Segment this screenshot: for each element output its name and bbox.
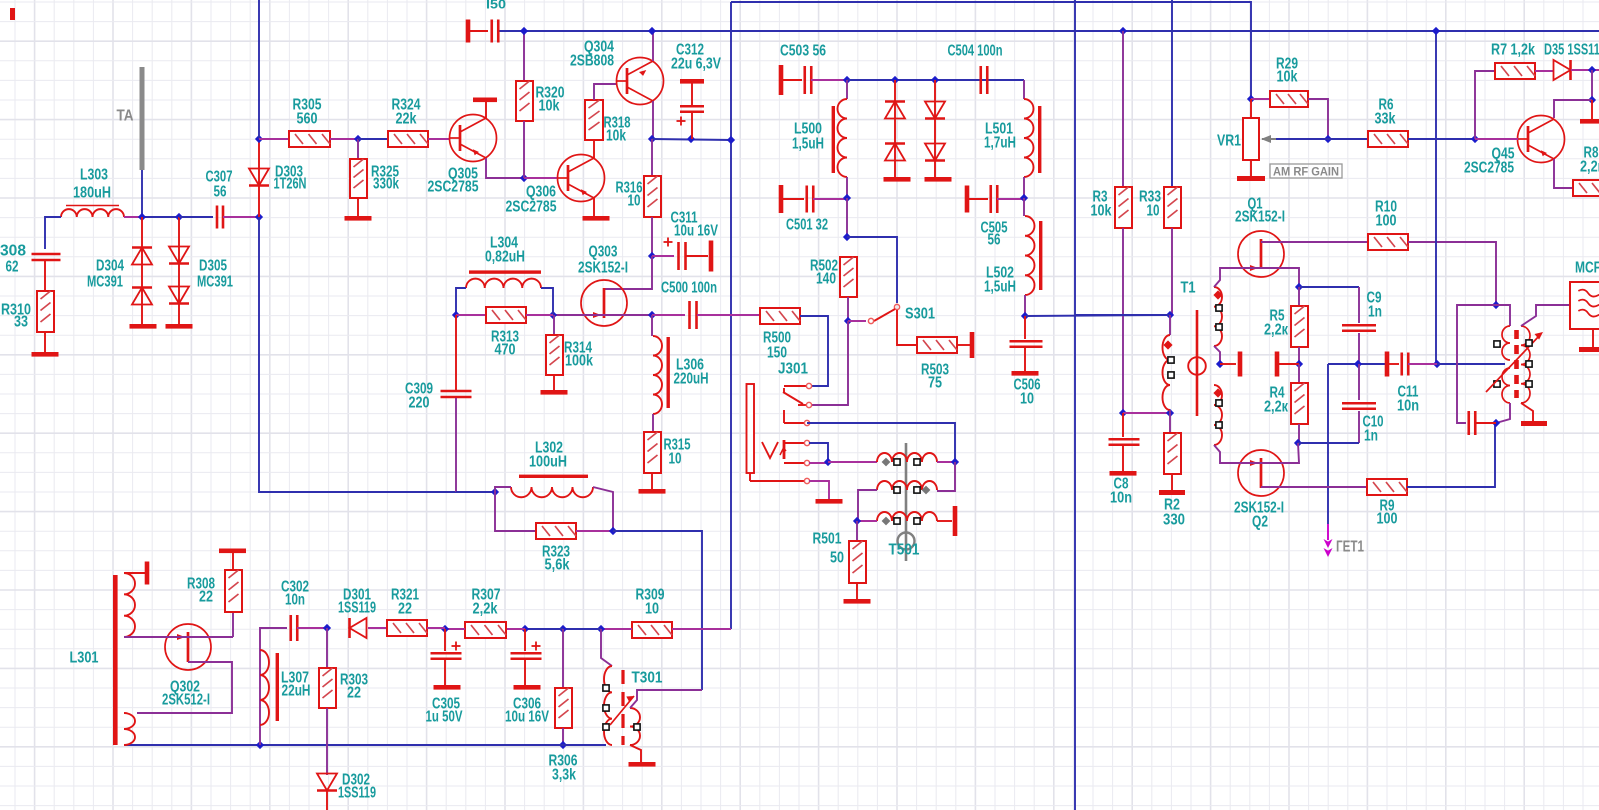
jack J301 sleeve pin bbox=[749, 473, 751, 481]
wire C305 bottom lead bbox=[444, 659, 446, 685]
wire L500 bottom lead bbox=[846, 177, 848, 198]
wire C12 left bbox=[1457, 305, 1496, 423]
wire R325 to ground bbox=[357, 198, 359, 216]
resistor R318 bbox=[585, 100, 603, 140]
diode D302 (1SS119) bbox=[317, 774, 337, 791]
wire winding bottom to Q302 gate bbox=[124, 636, 165, 638]
wire R310 to ground bbox=[44, 332, 46, 352]
inductor L303 bbox=[66, 205, 119, 207]
wire Q302 source line bbox=[137, 662, 232, 713]
wire R10 right down bbox=[1408, 242, 1496, 305]
svg-text:T301: T301 bbox=[632, 670, 663, 687]
wire contact4 to T501 node bbox=[809, 443, 828, 462]
junction L502 top node bbox=[1020, 194, 1028, 202]
svg-text:10k: 10k bbox=[1091, 203, 1112, 220]
resistor R315 bbox=[644, 432, 661, 473]
svg-text:100uH: 100uH bbox=[529, 454, 567, 471]
svg-text:10u 16V: 10u 16V bbox=[674, 223, 718, 240]
wire collector node right bbox=[652, 139, 732, 140]
wire node to C306 node bbox=[525, 628, 563, 630]
svg-text:R7 1,2k: R7 1,2k bbox=[1491, 42, 1535, 59]
junction antenna node bbox=[138, 213, 146, 221]
wire left winding top lead bbox=[1169, 315, 1171, 335]
svg-text:10n: 10n bbox=[1110, 490, 1132, 507]
resistor R305 bbox=[289, 131, 330, 147]
svg-text:2SK152-I: 2SK152-I bbox=[1235, 209, 1285, 226]
resistor R502 bbox=[840, 257, 857, 297]
wire D305 node to C307 bbox=[179, 216, 213, 218]
wire top winding left bbox=[828, 461, 877, 463]
svg-text:22uH: 22uH bbox=[282, 683, 311, 700]
ground under R325 bbox=[345, 216, 372, 221]
junction L304 right node bbox=[549, 311, 557, 319]
svg-text:10n: 10n bbox=[285, 592, 305, 609]
wire supply bus y=31 bbox=[499, 30, 1599, 32]
wire R313 to right node bbox=[526, 314, 553, 316]
wire R316 top lead bbox=[651, 139, 653, 176]
svg-text:C501 32: C501 32 bbox=[786, 217, 828, 234]
svg-text:L303: L303 bbox=[80, 167, 108, 184]
rail bar above Q305 bbox=[473, 98, 497, 103]
wire C10 bottom lead bbox=[1358, 411, 1360, 443]
capacitor C312 (electrolytic 22u) bbox=[680, 79, 704, 84]
svg-text:10: 10 bbox=[1020, 391, 1034, 408]
diode D35 (1SS119) bbox=[1554, 60, 1571, 80]
wire D303 lead bbox=[258, 139, 260, 217]
diode ring D500b bbox=[885, 144, 905, 161]
junction R7 branch bbox=[1471, 135, 1479, 143]
transformer T301 core dashed bbox=[621, 670, 624, 745]
svg-text:AM RF GAIN: AM RF GAIN bbox=[1273, 164, 1339, 178]
wire long vertical x=731 (AGC) bbox=[730, 2, 732, 629]
svg-text:1,7uH: 1,7uH bbox=[984, 135, 1016, 152]
wire T301 right top bbox=[630, 690, 702, 708]
transistor Q2 (2SK152-I) bbox=[1238, 450, 1284, 496]
wire right winding bottom bbox=[1521, 403, 1533, 421]
wire R4 bottom lead bbox=[1298, 424, 1300, 443]
wire Q306 collector to R318 bbox=[593, 140, 595, 158]
wire R503 to bar bbox=[957, 344, 970, 346]
svg-text:220: 220 bbox=[409, 395, 430, 412]
transistor Q305 (2SC2785) bbox=[450, 115, 497, 162]
wire R324 to Q305 base bbox=[428, 138, 450, 140]
transformer T1 lower right winding bbox=[1214, 385, 1222, 445]
wire node to R29 bbox=[1251, 98, 1270, 100]
svg-text:S301: S301 bbox=[905, 306, 935, 323]
svg-text:T501: T501 bbox=[889, 542, 920, 559]
ground under VR1 bbox=[1237, 176, 1265, 181]
wire R29 right down bbox=[1308, 99, 1328, 139]
ground under ring col1 bbox=[884, 177, 911, 182]
svg-text:MC391: MC391 bbox=[197, 274, 233, 291]
junction VR1 top node bbox=[1247, 95, 1255, 103]
wire bar to plates bbox=[1389, 363, 1399, 365]
wire C505 left lead bbox=[969, 198, 988, 200]
wire T301 right bottom bbox=[630, 745, 641, 762]
resistor R8 (2,2k) bbox=[1573, 180, 1599, 196]
wire R3 top lead bbox=[1122, 31, 1124, 187]
wire L307 top corner bbox=[260, 628, 287, 745]
transformer T301 arrow bbox=[610, 696, 634, 725]
wire C309 bottom lead bbox=[455, 398, 457, 492]
svg-text:C504 100n: C504 100n bbox=[948, 43, 1003, 60]
bar terminal right pair bbox=[1275, 352, 1280, 377]
wire GET1 vertical x=1328 bbox=[1327, 364, 1329, 524]
svg-text:180uH: 180uH bbox=[73, 185, 111, 202]
svg-text:22: 22 bbox=[199, 589, 213, 606]
resistor R10 bbox=[1368, 234, 1408, 250]
svg-text:MCF: MCF bbox=[1575, 260, 1599, 277]
ground under R315 bbox=[639, 489, 666, 494]
wire R2 top lead bbox=[1169, 413, 1171, 433]
wire C11 node to tap bbox=[1437, 363, 1505, 365]
svg-text:220uH: 220uH bbox=[674, 371, 709, 388]
svg-text:10k: 10k bbox=[606, 128, 626, 145]
junction Q45 collector node bbox=[1588, 96, 1596, 104]
junction R5 top node bbox=[1295, 283, 1303, 291]
svg-text:TA: TA bbox=[117, 108, 134, 125]
jack J301 tip contact bbox=[784, 385, 807, 387]
ground under D305 bbox=[166, 324, 193, 329]
svg-text:T1: T1 bbox=[1181, 280, 1196, 297]
wire R9 right up bbox=[1407, 423, 1495, 487]
wire node to R313 bbox=[456, 314, 486, 316]
junction T1 bottom node bbox=[1166, 409, 1174, 417]
junction Q304 collector node bbox=[648, 135, 656, 143]
svg-text:33k: 33k bbox=[1375, 111, 1396, 128]
svg-text:10: 10 bbox=[628, 193, 641, 210]
svg-text:308: 308 bbox=[0, 243, 26, 260]
wire osc top bbox=[1496, 305, 1510, 326]
wire R6 right bbox=[1408, 138, 1475, 140]
wire R7 riser bbox=[1475, 71, 1495, 139]
wire L302 left leg bbox=[495, 487, 511, 492]
svg-text:10n: 10n bbox=[1397, 398, 1419, 415]
oscillator transformer core dashed bbox=[1514, 330, 1519, 398]
wire C500 left lead bbox=[652, 314, 685, 316]
wire GET1 lower bbox=[1327, 524, 1329, 540]
inductor L307 bbox=[260, 650, 269, 725]
wire C9 bottom lead bbox=[1358, 333, 1360, 364]
wire C8 bottom lead bbox=[1122, 446, 1124, 471]
resistor R321 bbox=[387, 620, 427, 636]
wire R323 right bbox=[576, 530, 613, 532]
svg-text:1,5uH: 1,5uH bbox=[792, 136, 824, 153]
wire long vertical x=259 down-left feed bbox=[259, 217, 456, 492]
svg-text:2,2к: 2,2к bbox=[1264, 399, 1288, 416]
junction L307 bottom bbox=[256, 741, 264, 749]
junction R305-D303 node bbox=[255, 135, 263, 143]
junction ring diode col1 top bbox=[891, 76, 899, 84]
svg-text:330k: 330k bbox=[373, 176, 399, 193]
svg-text:2SC2785: 2SC2785 bbox=[1464, 160, 1514, 177]
resistor R324 bbox=[388, 131, 428, 147]
wire node to bar bbox=[1591, 100, 1593, 119]
resistor R323 bbox=[536, 523, 576, 539]
wire L500 top lead bbox=[846, 80, 848, 99]
wire C8 node link bbox=[1123, 412, 1170, 414]
wire L306 top lead bbox=[651, 315, 653, 336]
wire R315 to ground bbox=[651, 473, 653, 489]
diode D305 lower (MC391) bbox=[169, 287, 189, 304]
junction L304 left node bbox=[452, 311, 460, 319]
svg-text:1SS119: 1SS119 bbox=[338, 600, 376, 617]
supply bar above R308 bbox=[219, 549, 246, 554]
wire C311 to bar bbox=[686, 255, 708, 257]
wire L501 bottom lead bbox=[1023, 177, 1025, 198]
junction R306 top node bbox=[559, 625, 567, 633]
junction C306 top node bbox=[521, 625, 529, 633]
wire C312 bottom lead bbox=[691, 112, 693, 139]
GET1 arrow bbox=[1324, 539, 1333, 548]
junction switch common bbox=[844, 317, 852, 325]
wire S301 feed bbox=[847, 237, 897, 303]
svg-text:10: 10 bbox=[645, 601, 659, 618]
wire upper winding top to Q1 gate bbox=[1214, 268, 1249, 287]
ground under D304 bbox=[130, 324, 157, 329]
svg-text:2,2к: 2,2к bbox=[1264, 322, 1288, 339]
wire L304 right leg bbox=[541, 288, 553, 315]
wire L304 left leg bbox=[456, 288, 466, 315]
wire R33 bottom lead bbox=[1171, 228, 1173, 315]
wire right winding top to MCF bbox=[1521, 305, 1570, 326]
junction T1 top node bbox=[1166, 311, 1174, 319]
wire D35 to right edge bbox=[1571, 69, 1599, 71]
wire mid winding right bbox=[937, 462, 955, 491]
svg-text:2SK512-I: 2SK512-I bbox=[162, 692, 210, 709]
junction D303 bottom node bbox=[255, 213, 263, 221]
wire C309 top lead bbox=[455, 315, 457, 390]
svg-text:J301: J301 bbox=[778, 361, 808, 378]
wire L306 bottom lead bbox=[652, 414, 654, 432]
junction tank top left bbox=[843, 76, 851, 84]
svg-text:56: 56 bbox=[214, 184, 227, 201]
svg-text:2,2k: 2,2k bbox=[473, 601, 498, 618]
wire Q1 drain line to R10 bbox=[1261, 241, 1368, 243]
wire R309 left bbox=[601, 628, 632, 630]
svg-text:50: 50 bbox=[830, 550, 844, 567]
transistor Q306 (2SC2785) bbox=[558, 155, 605, 202]
wire R307 left to C305 node bbox=[445, 628, 465, 630]
wire R314 top lead bbox=[553, 315, 555, 335]
wire Q303 drain line bbox=[603, 256, 652, 289]
wire bottom winding left bbox=[857, 520, 877, 522]
wire C308 to R310 bbox=[44, 261, 46, 291]
inductor L301 primary winding bbox=[124, 573, 135, 637]
junction R320 bus bbox=[520, 27, 528, 35]
junction C311 node bbox=[648, 252, 656, 260]
wire T1 node to L502 node bbox=[1075, 314, 1170, 316]
wire R33 top lead bbox=[1171, 0, 1173, 187]
wire R2 bottom lead bbox=[1171, 474, 1173, 490]
antenna TA bbox=[140, 67, 145, 170]
transistor Q302 (2SK512-I) bbox=[165, 624, 211, 670]
wire R3 bottom lead bbox=[1122, 228, 1124, 413]
junction L302 left node bbox=[491, 488, 499, 496]
wire R306 top lead bbox=[562, 629, 564, 688]
wire R306 bottom lead bbox=[562, 728, 564, 745]
junction T301 top node bbox=[597, 625, 605, 633]
svg-text:2SC2785: 2SC2785 bbox=[506, 199, 557, 216]
inductor L304 bbox=[469, 270, 541, 273]
svg-text:470: 470 bbox=[495, 342, 516, 359]
wire Q45 emitter bbox=[1554, 159, 1573, 188]
junction C8 node bbox=[1119, 409, 1127, 417]
svg-text:22k: 22k bbox=[396, 111, 417, 128]
wire C302 right to node bbox=[297, 627, 327, 629]
ground under C8 bbox=[1110, 471, 1137, 476]
wire vertical x=259 from top edge bbox=[258, 0, 260, 139]
wire R320 top lead bbox=[523, 31, 525, 81]
wire C306 bottom lead bbox=[524, 659, 526, 685]
junction mid rail node bbox=[1295, 360, 1303, 368]
wire C506 bottom lead bbox=[1024, 347, 1026, 371]
wire C506 top lead bbox=[1024, 316, 1026, 339]
wire y=492 feed bbox=[456, 491, 495, 493]
svg-text:C503 56: C503 56 bbox=[780, 43, 826, 60]
wire R314 to ground bbox=[553, 375, 555, 390]
wire left winding bottom lead bbox=[1169, 410, 1171, 413]
wire ring col1 bbox=[894, 80, 896, 177]
wire R321 to C305 node bbox=[427, 627, 445, 629]
wire C503 left lead bbox=[783, 79, 802, 81]
bar right of T501 bottom winding bbox=[953, 506, 958, 536]
wire long vertical x=1075 bbox=[1074, 0, 1076, 810]
wire Q2 source line bbox=[1261, 486, 1367, 488]
wire mid rail bbox=[1328, 363, 1385, 365]
wire R501 top lead bbox=[856, 521, 858, 541]
wire Q305 collector to rail bar bbox=[485, 102, 487, 118]
svg-text:1SS119: 1SS119 bbox=[338, 785, 376, 802]
ground under T301 bbox=[629, 762, 656, 767]
transformer T501 core line bbox=[905, 443, 908, 561]
wire vertical bus x=1436 bbox=[1435, 31, 1437, 364]
junction ring diode col2 top bbox=[931, 76, 939, 84]
transistor Q45 (2SC2785) bbox=[1518, 116, 1565, 163]
diode D304 lower (MC391) bbox=[132, 288, 152, 305]
svg-text:D304: D304 bbox=[96, 258, 124, 275]
wire node to collector bbox=[1554, 100, 1592, 118]
svg-text:560: 560 bbox=[297, 111, 318, 128]
junction winding bar node bbox=[1216, 360, 1224, 368]
wire node to R306 bbox=[563, 628, 601, 630]
wire R4 top lead bbox=[1298, 364, 1300, 383]
wire osc bottom bbox=[1496, 403, 1510, 423]
svg-text:1,5uH: 1,5uH bbox=[984, 279, 1016, 296]
ground under Q306 bbox=[583, 216, 610, 221]
wire Q302 drain up to R308 bbox=[232, 612, 234, 637]
wire node to R305 bbox=[259, 138, 289, 140]
svg-text:22u 6,3V: 22u 6,3V bbox=[671, 56, 722, 73]
junction osc top node bbox=[1492, 301, 1500, 309]
svg-text:10: 10 bbox=[1147, 203, 1160, 220]
wire R7 to D35 bbox=[1535, 70, 1553, 72]
ground under C306 bbox=[514, 685, 541, 690]
wire winding node to bar bbox=[1220, 363, 1236, 365]
svg-text:150: 150 bbox=[767, 345, 787, 362]
ground under R2 bbox=[1159, 490, 1185, 495]
junction D35 out bbox=[1588, 66, 1596, 74]
resistor R9 bbox=[1367, 479, 1407, 495]
wire top net y=2 (AGC loop) bbox=[731, 2, 1251, 99]
MCF ground pin bbox=[1592, 329, 1594, 347]
wire L303 right to antenna node bbox=[124, 216, 142, 218]
wire contact5 to T501 node bbox=[809, 462, 828, 464]
svg-text:MC391: MC391 bbox=[87, 274, 123, 291]
junction R3 bus bbox=[1119, 27, 1127, 35]
wire R501 to ground bbox=[856, 583, 858, 599]
resistor R307 bbox=[465, 622, 506, 638]
junction C11 right node bbox=[1433, 360, 1441, 368]
wire ring col2 bbox=[934, 80, 936, 177]
wire base feed bbox=[1475, 138, 1518, 140]
wire C12 right bbox=[1475, 422, 1496, 424]
junction D301 node bbox=[323, 624, 331, 632]
AM RF GAIN box bbox=[1270, 164, 1342, 178]
svg-text:R501: R501 bbox=[813, 531, 842, 548]
resistor R308 bbox=[225, 570, 242, 612]
wire Q2 through line bbox=[1238, 443, 1299, 463]
wire Q306 emitter to ground bbox=[593, 198, 595, 216]
capacitor C504 bbox=[979, 66, 982, 94]
wire R305 to R325 node bbox=[330, 138, 358, 140]
VR1 wiper arrow bbox=[1262, 138, 1276, 140]
wire winding top to bar bbox=[124, 572, 145, 574]
junction R306 bottom bbox=[559, 741, 567, 749]
transformer T1 tuning circle bbox=[1188, 357, 1206, 375]
transformer T301 right winding bbox=[630, 708, 640, 745]
junction x1436 bus bbox=[1432, 27, 1440, 35]
diode ring D500d bbox=[925, 144, 945, 161]
jack J301 contact 2 bbox=[798, 404, 807, 406]
jack J301 contact 5 bbox=[784, 462, 805, 464]
wire R309 right to AGC riser bbox=[672, 628, 731, 630]
transformer T1 core bbox=[1196, 310, 1199, 416]
wire Q305 emitter down bbox=[486, 158, 524, 178]
wire D304 lead bbox=[141, 217, 143, 324]
MCF filter box bbox=[1570, 282, 1599, 329]
wire C501 left lead bbox=[783, 198, 804, 200]
jack J301 contact 4 bbox=[784, 442, 805, 444]
svg-text:D305: D305 bbox=[199, 258, 227, 275]
wire node to C10 bottom bbox=[1298, 442, 1359, 444]
svg-text:56: 56 bbox=[988, 232, 1001, 249]
svg-text:2SK152-I: 2SK152-I bbox=[578, 260, 628, 277]
transformer T1 upper right winding bbox=[1214, 287, 1222, 346]
svg-text:22: 22 bbox=[347, 685, 361, 702]
oscillator coil left winding lower bbox=[1502, 368, 1510, 403]
junction R502 top node bbox=[843, 233, 851, 241]
svg-text:330: 330 bbox=[1163, 512, 1185, 529]
bar terminal left pair bbox=[1238, 352, 1243, 377]
transistor Q304 (2SB808) bbox=[617, 58, 664, 105]
wire L302 node down to R323 bbox=[495, 492, 536, 531]
junction C9 bottom node bbox=[1354, 360, 1362, 368]
capacitor C503 bbox=[779, 65, 784, 95]
ground under osc winding bbox=[1521, 421, 1547, 426]
diode D305 upper (MC391) bbox=[169, 247, 189, 264]
junction R325 top bbox=[354, 135, 362, 143]
junction R323 right node bbox=[609, 527, 617, 535]
wire lower winding to Q2 gate bbox=[1214, 445, 1238, 463]
jack J301 lever bbox=[783, 388, 785, 392]
resistor R310 bbox=[37, 291, 54, 332]
wire node to C9 bbox=[1299, 286, 1359, 288]
wire R502 node down to J301 bbox=[811, 321, 848, 405]
svg-text:75: 75 bbox=[928, 375, 942, 392]
capacitor C307 bbox=[216, 206, 219, 229]
wire R303 top lead bbox=[326, 628, 328, 668]
